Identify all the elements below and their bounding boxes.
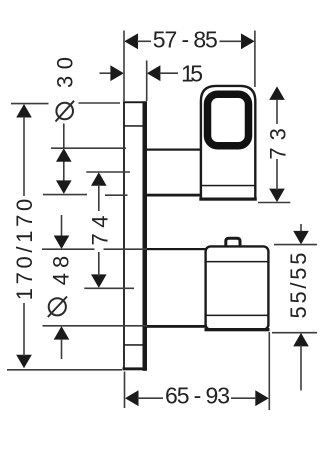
thermostat body bbox=[206, 246, 269, 329]
dimension dia30: dim line with inside arrows bbox=[63, 124, 65, 148]
dimension 74: dim line with inside arrows bbox=[91, 172, 107, 288]
dimension 65-93: dim line + arrows bbox=[125, 390, 269, 406]
handle outer shell bbox=[201, 86, 255, 200]
body top button tab bbox=[226, 238, 240, 246]
dimension 57-85: dim line + arrows bbox=[124, 33, 254, 49]
svg-text:55/55: 55/55 bbox=[286, 253, 311, 319]
dimension 55/55: outside arrows + tails bbox=[300, 224, 302, 233]
svg-text:65 - 93: 65 - 93 bbox=[165, 383, 230, 409]
dimension 73: dim line with outward arrows bbox=[269, 86, 285, 202]
dimension dia30: top extension line bbox=[51, 147, 126, 149]
dimension 15: leader + outside arrows bbox=[100, 72, 112, 74]
body inner line top bbox=[205, 261, 269, 263]
dimension 170/170: dim line with outward arrows bbox=[16, 104, 32, 368]
dimension dia48: bottom extension line bbox=[43, 325, 148, 327]
dimension 170/170: bottom extension line bbox=[7, 369, 122, 371]
dimension 57-85: right extension line bbox=[254, 31, 256, 88]
dimension 65-93: left extension line bbox=[124, 372, 126, 409]
svg-text:15: 15 bbox=[181, 60, 203, 86]
dimension dia48: outside arrows + tails bbox=[61, 215, 63, 236]
dimension 74: bottom extension line bbox=[84, 287, 134, 289]
body inner line bottom bbox=[205, 315, 269, 317]
handle stem (upper connection) bbox=[146, 149, 201, 197]
dimension dia48: top extension line bbox=[42, 248, 95, 250]
handle skirt line bbox=[201, 185, 256, 187]
svg-text:57 - 85: 57 - 85 bbox=[153, 27, 218, 53]
wall plate (escutcheon, side view) bbox=[123, 101, 148, 371]
dimension 73: bottom extension line bbox=[258, 202, 290, 204]
dimension 55/55: bottom extension line bbox=[272, 332, 317, 334]
handle bottom edge (thick) bbox=[199, 198, 256, 201]
dimension 15: right extension line bbox=[146, 60, 148, 101]
dimension 55/55: top extension line bbox=[274, 244, 317, 246]
dimension 170/170: top extension line bbox=[11, 103, 49, 105]
body bottom edge (thick) bbox=[205, 328, 270, 331]
handle grip ring (thick rounded square) bbox=[208, 94, 249, 146]
dimension dia48: symbol bbox=[48, 297, 67, 318]
body stem (lower connection) bbox=[146, 248, 206, 328]
dimension 57-85: left extension line bbox=[123, 31, 125, 102]
dimension dia30: bottom extension line bbox=[43, 194, 87, 196]
dimension dia30: symbol bbox=[56, 101, 75, 122]
dimension 65-93: right extension line bbox=[268, 332, 270, 410]
dimension 74: top extension line bbox=[86, 171, 130, 173]
